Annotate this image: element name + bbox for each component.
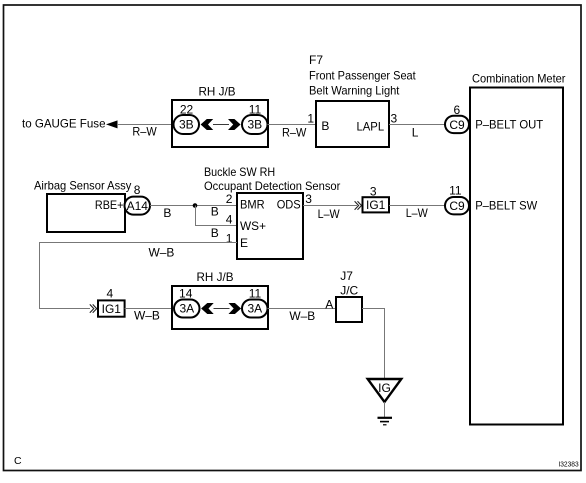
svg-text:B: B (163, 206, 171, 220)
svg-text:W–B: W–B (134, 309, 160, 323)
svg-text:J7: J7 (340, 269, 353, 283)
buckle switch RH / occupant detection sensor (204, 165, 340, 259)
svg-text:Front Passenger Seat: Front Passenger Seat (309, 68, 416, 82)
pin 11 (combination meter C9 lower) (449, 183, 462, 197)
svg-text:LAPL: LAPL (357, 119, 385, 133)
node: to GAUGE Fuse (22, 117, 118, 131)
node P-BELT SW (475, 199, 538, 213)
pin 4 (buckle switch WS+) (226, 213, 233, 227)
junction connector J7 J/C (336, 269, 362, 322)
svg-text:WS+: WS+ (240, 219, 266, 233)
svg-text:J/C: J/C (340, 284, 358, 298)
wire between connector arrows (top J/B) (213, 124, 229, 126)
svg-text:11: 11 (449, 183, 462, 197)
svg-text:C: C (14, 455, 22, 467)
relay block IG1 (row 3) (98, 300, 125, 316)
svg-text:RH J/B: RH J/B (199, 85, 236, 99)
connector A14 (125, 197, 151, 215)
svg-text:4: 4 (226, 213, 233, 227)
svg-text:C9: C9 (449, 118, 465, 132)
svg-text:IG1: IG1 (102, 302, 122, 316)
pin 6 (combination meter C9) (453, 103, 460, 117)
svg-text:to GAUGE Fuse: to GAUGE Fuse (22, 117, 106, 131)
pin 3 (F7) (391, 112, 398, 126)
pin 4 (IG1 bottom) (107, 287, 114, 301)
svg-text:R–W: R–W (132, 125, 157, 139)
svg-text:C9: C9 (449, 199, 465, 213)
svg-text:A14: A14 (127, 199, 149, 213)
svg-text:RH J/B: RH J/B (197, 270, 234, 284)
splice arrows (row 3) (90, 304, 97, 312)
svg-text:Occupant Detection Sensor: Occupant Detection Sensor (204, 179, 340, 193)
svg-text:F7: F7 (309, 53, 323, 67)
svg-text:3A: 3A (247, 301, 262, 315)
junction block RH J/B (top) (172, 85, 268, 148)
connector arrow (right, bottom J/B) (229, 303, 242, 314)
svg-text:IG1: IG1 (366, 198, 386, 212)
pin 1 (F7) (307, 112, 314, 126)
svg-text:RBE+: RBE+ (95, 198, 124, 212)
svg-text:2: 2 (226, 192, 233, 206)
note: figure number I32383 (558, 461, 578, 468)
connector C9 (P-BELT SW) (445, 197, 469, 214)
wire W-B: IG1 to RH J/B pin 14 (125, 309, 172, 323)
wire L: F7 pin 3 to combination meter pin 6 (389, 125, 445, 140)
wire: J/C to IG ground (362, 309, 385, 380)
wire L-W: IG1 to combination meter pin 11 (389, 206, 445, 221)
svg-text:3B: 3B (247, 117, 262, 131)
junction (193, 203, 198, 208)
pin 2 (buckle switch BMR) (226, 192, 233, 206)
svg-text:P–BELT OUT: P–BELT OUT (475, 117, 544, 131)
connector arrow (right, top J/B) (228, 119, 241, 130)
svg-text:P–BELT SW: P–BELT SW (475, 199, 538, 213)
airbag sensor assembly (34, 178, 131, 232)
svg-text:B: B (211, 205, 219, 219)
wire B: A14 to buckle switch pin 2 (150, 205, 237, 220)
svg-text:R–W: R–W (282, 125, 307, 139)
svg-text:E: E (240, 236, 248, 250)
connector arrow (left, top J/B) (201, 119, 214, 130)
ground (378, 418, 393, 425)
svg-text:Airbag Sensor Assy: Airbag Sensor Assy (34, 178, 131, 192)
svg-text:8: 8 (134, 183, 141, 197)
connector arrow (left, bottom J/B) (201, 303, 214, 314)
connector 3B pin 11 (242, 103, 268, 135)
wire R-W: GAUGE fuse to RH J/B pin 22 (117, 125, 172, 139)
svg-text:3: 3 (391, 112, 398, 126)
connector 3A pin 11 (242, 287, 268, 318)
svg-text:4: 4 (107, 287, 114, 301)
svg-text:A: A (325, 297, 333, 311)
svg-text:Combination Meter: Combination Meter (472, 72, 566, 86)
svg-text:3B: 3B (179, 117, 194, 131)
pin A (J7) (325, 297, 333, 311)
pin 3 (buckle switch ODS) (305, 192, 312, 206)
wire B: junction to buckle switch pin 4 (196, 206, 238, 240)
node P-BELT OUT (475, 117, 544, 131)
junction block RH J/B (bottom) (172, 270, 268, 329)
connector C9 (P-BELT OUT) (445, 116, 469, 133)
svg-text:L–W: L–W (406, 206, 429, 220)
pin 8 (airbag sensor) (134, 183, 141, 197)
svg-text:IG: IG (378, 381, 391, 395)
lamp F7 Front Passenger Seat Belt Warning Light (309, 53, 416, 147)
wire R-W: RH J/B pin 11 to F7 pin 1 (268, 125, 317, 140)
wire W-B: buckle switch pin E to IG1 (bottom) (40, 243, 238, 309)
svg-text:I32383: I32383 (558, 461, 578, 468)
svg-text:W–B: W–B (289, 309, 315, 323)
svg-text:L–W: L–W (318, 207, 341, 221)
wire L-W: buckle switch pin 3 to IG1 (303, 206, 357, 221)
ground triangle IG (368, 379, 402, 402)
svg-text:BMR: BMR (240, 198, 265, 212)
svg-text:ODS: ODS (277, 198, 301, 212)
splice arrows (row 2) (355, 201, 362, 209)
svg-text:B: B (321, 119, 329, 133)
pin 3 (IG1 top) (370, 185, 377, 199)
svg-text:B: B (211, 226, 219, 240)
connector 3A pin 14 (174, 287, 200, 318)
pin 1 (buckle switch E) (226, 231, 233, 245)
svg-text:L: L (412, 126, 419, 140)
combination meter box (470, 72, 566, 425)
connector 3B pin 22 (174, 103, 200, 135)
wire between connector arrows (bottom J/B) (214, 308, 230, 310)
note: page index C (14, 455, 22, 467)
svg-text:Buckle SW RH: Buckle SW RH (204, 165, 275, 179)
svg-text:3: 3 (305, 192, 312, 206)
svg-text:W–B: W–B (149, 245, 175, 259)
svg-text:3A: 3A (179, 301, 194, 315)
wire W-B: RH J/B pin 11 to junction connector J7 pin A (268, 309, 337, 323)
svg-text:1: 1 (226, 231, 233, 245)
wire: triangle to ground (384, 402, 386, 417)
svg-text:1: 1 (307, 112, 314, 126)
svg-text:Belt Warning Light: Belt Warning Light (309, 84, 400, 98)
relay block IG1 (row 2) (363, 197, 390, 212)
